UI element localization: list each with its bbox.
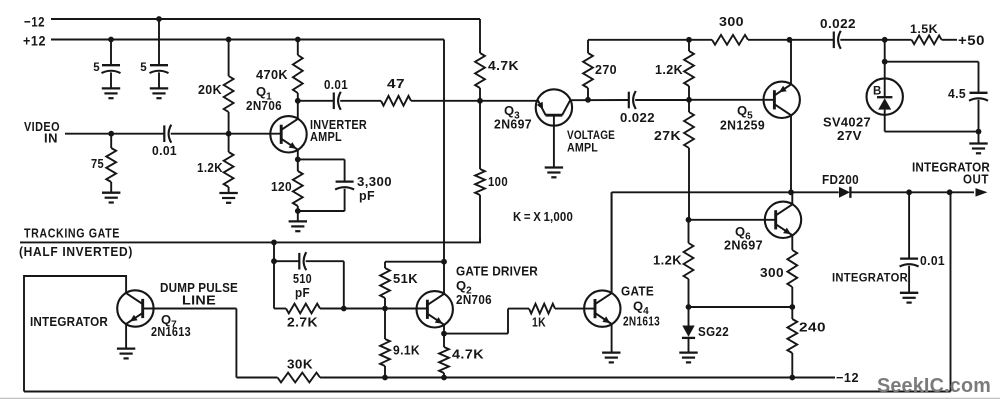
capacitor 3300pF bbox=[298, 159, 392, 211]
svg-text:pF: pF bbox=[359, 188, 375, 203]
ground Q3 base bbox=[545, 168, 563, 178]
node Q1 emitter bbox=[295, 157, 301, 163]
resistor 120 bbox=[271, 159, 303, 221]
svg-text:2N1613: 2N1613 bbox=[151, 324, 191, 339]
wire 47 to Q3 emitter bbox=[411, 100, 538, 102]
ground Q4 bbox=[602, 353, 620, 363]
svg-text:1.2K: 1.2K bbox=[653, 253, 682, 268]
capacitor 0.022 top bbox=[820, 17, 856, 49]
transistor Q7 2N1613 bbox=[117, 290, 153, 348]
svg-text:27V: 27V bbox=[837, 128, 862, 143]
capacitor 0.01 integrator bbox=[900, 192, 945, 292]
resistor 51K bbox=[380, 262, 444, 309]
svg-text:5: 5 bbox=[93, 62, 100, 74]
label Q1 bbox=[246, 84, 282, 113]
node Q5 emitter rail bbox=[787, 37, 793, 43]
resistor 470K bbox=[256, 37, 303, 101]
wire right rail bbox=[588, 39, 957, 41]
svg-text:GATE: GATE bbox=[621, 284, 654, 299]
wire +12 vertical feed to Q2 collector bbox=[443, 40, 445, 295]
resistor 2.7K bbox=[274, 304, 428, 330]
capacitor 4.5 bbox=[948, 86, 988, 101]
svg-text:51K: 51K bbox=[393, 271, 418, 286]
wire Q3 collector line bbox=[570, 99, 629, 101]
transistor Q2 2N706 bbox=[417, 291, 453, 334]
node 270 bottom bbox=[585, 97, 591, 103]
wire cap to 47 bbox=[340, 100, 381, 102]
node SG22 top bbox=[686, 304, 692, 310]
svg-text:1.5K: 1.5K bbox=[910, 24, 938, 36]
net label +50 bbox=[958, 32, 985, 48]
svg-text:INTEGRATOR: INTEGRATOR bbox=[30, 314, 108, 329]
transistor Q6 2N697 bbox=[765, 192, 801, 250]
node 510 branch bbox=[271, 258, 277, 264]
node 51K/9.1K/Q2 base bbox=[382, 306, 388, 312]
svg-text:TRACKING GATE: TRACKING GATE bbox=[24, 227, 120, 241]
net label VIDEO IN bbox=[24, 120, 60, 146]
wire Q2 emitter to 1K bbox=[444, 309, 508, 334]
wire 4.5 branch bbox=[885, 62, 979, 132]
capacitor C1 5 bbox=[93, 40, 120, 89]
svg-text:INTEGRATOR: INTEGRATOR bbox=[832, 271, 908, 285]
svg-text:9.1K: 9.1K bbox=[393, 343, 420, 358]
label K=X1,000 bbox=[513, 210, 573, 224]
label INTEGRATOR OUT bbox=[912, 161, 990, 187]
svg-text:+50: +50 bbox=[958, 32, 985, 48]
svg-text:270: 270 bbox=[595, 62, 617, 77]
label Q6 bbox=[724, 224, 763, 253]
svg-text:47: 47 bbox=[387, 76, 405, 91]
label INVERTER AMPL bbox=[310, 118, 367, 144]
node divider / Q5 base bbox=[686, 97, 692, 103]
svg-text:FD200: FD200 bbox=[822, 172, 859, 187]
net label +12 bbox=[23, 32, 46, 48]
svg-text:4.5: 4.5 bbox=[948, 86, 966, 101]
label DUMP PULSE LINE bbox=[160, 280, 238, 308]
svg-text:2N1259: 2N1259 bbox=[720, 118, 765, 133]
resistor 4.7K top bbox=[475, 19, 519, 101]
watermark bbox=[877, 374, 991, 397]
resistor 75 bbox=[91, 134, 116, 193]
svg-text:2N706: 2N706 bbox=[246, 98, 282, 113]
ground C1 bbox=[102, 88, 120, 98]
node 75 ohm top bbox=[108, 131, 114, 137]
wire dump pulse line bbox=[143, 309, 237, 378]
svg-text:0.022: 0.022 bbox=[820, 17, 856, 31]
arrow integrator out bbox=[976, 188, 988, 197]
ground SG22 bbox=[679, 353, 697, 363]
wire +12 rail bbox=[51, 39, 444, 41]
svg-text:300: 300 bbox=[719, 14, 744, 29]
svg-text:0.022: 0.022 bbox=[620, 110, 655, 125]
ground Q1 emitter bbox=[289, 221, 307, 231]
label TRACKING GATE bbox=[24, 227, 120, 241]
resistor 270 bbox=[583, 40, 617, 100]
resistor 1K bbox=[508, 304, 595, 330]
wire SV4027 top bbox=[884, 40, 886, 79]
svg-text:K = X 1,000: K = X 1,000 bbox=[513, 210, 573, 224]
resistor 47 bbox=[381, 76, 411, 106]
label VOLTAGE AMPL bbox=[567, 128, 615, 155]
svg-text:5: 5 bbox=[140, 62, 147, 74]
svg-text:pF: pF bbox=[295, 285, 310, 300]
svg-text:3,300: 3,300 bbox=[357, 174, 392, 189]
svg-text:−12: −12 bbox=[836, 370, 859, 385]
node -12/C2 bbox=[156, 16, 162, 22]
node 47/4.7K/100 bbox=[477, 98, 483, 104]
node SV4027 branch bbox=[882, 59, 888, 65]
label INTEGRATOR right bbox=[832, 271, 908, 285]
svg-text:510: 510 bbox=[293, 271, 312, 286]
wire feedback bottom bbox=[24, 192, 951, 391]
svg-text:240: 240 bbox=[799, 320, 826, 335]
svg-text:4.7K: 4.7K bbox=[488, 58, 519, 73]
svg-text:SeekIC.com: SeekIC.com bbox=[877, 374, 991, 397]
wire SV4027 bottom bbox=[885, 131, 979, 133]
diode FD200 bbox=[822, 172, 859, 198]
wire Q1 collector to cap bbox=[298, 100, 334, 102]
label GATE DRIVER bbox=[456, 264, 538, 308]
svg-text:1K: 1K bbox=[532, 315, 546, 330]
wire Q5 base bbox=[689, 99, 774, 101]
resistor 300 Q6 bbox=[760, 250, 797, 307]
capacitor 0.022 coupling bbox=[620, 91, 655, 125]
svg-text:AMPL: AMPL bbox=[567, 141, 598, 155]
resistor 20K bbox=[198, 37, 234, 134]
wire tracking gate bbox=[20, 238, 481, 242]
label INTEGRATOR left bbox=[30, 314, 108, 329]
svg-text:1.2K: 1.2K bbox=[655, 62, 683, 77]
node feedback bbox=[947, 189, 953, 195]
wire 510 left bbox=[273, 242, 275, 308]
transistor Q4 2N1613 bbox=[584, 192, 620, 352]
node 9.1K bottom bbox=[382, 375, 388, 381]
resistor 27K bbox=[654, 100, 694, 220]
capacitor 0.01 input bbox=[152, 125, 177, 158]
node 0.01 integrator bbox=[906, 189, 912, 195]
svg-text:27K: 27K bbox=[654, 128, 681, 143]
svg-text:(HALF INVERTED): (HALF INVERTED) bbox=[19, 245, 133, 259]
node 51K/+12 bbox=[441, 259, 447, 265]
label (HALF INVERTED) bbox=[19, 245, 133, 259]
svg-text:IN: IN bbox=[44, 132, 58, 146]
svg-text:470K: 470K bbox=[256, 67, 288, 82]
resistor 4.7K Q2 bbox=[439, 334, 484, 378]
node tracking/510 bbox=[271, 240, 277, 246]
net label -12 bottom bbox=[836, 370, 859, 385]
node Q6 base bbox=[686, 217, 692, 223]
node Q2 emitter bbox=[441, 331, 447, 337]
svg-text:20K: 20K bbox=[198, 82, 222, 97]
svg-text:2N706: 2N706 bbox=[456, 292, 492, 307]
label Q5 bbox=[720, 103, 765, 133]
svg-text:75: 75 bbox=[91, 156, 104, 171]
svg-text:2N697: 2N697 bbox=[494, 117, 532, 132]
node 4.5 bottom bbox=[976, 129, 982, 135]
svg-text:2.7K: 2.7K bbox=[287, 315, 318, 330]
label Q3 bbox=[494, 103, 532, 132]
ground C2 bbox=[150, 88, 168, 98]
node 240 bottom bbox=[789, 375, 795, 381]
diode SV4027 27V bbox=[867, 78, 903, 131]
node 4.7K bottom bbox=[441, 375, 447, 381]
wire cap to Q1 base bbox=[171, 133, 282, 135]
svg-text:LINE: LINE bbox=[182, 293, 216, 308]
label SV4027 bbox=[823, 115, 871, 144]
transistor Q5 2N1259 bbox=[764, 40, 800, 193]
capacitor C2 5 bbox=[140, 19, 168, 88]
svg-text:AMPL: AMPL bbox=[310, 130, 342, 144]
wire Q6 base bbox=[689, 219, 776, 221]
transistor Q1 2N706 bbox=[270, 101, 306, 160]
ground Q7 bbox=[117, 349, 135, 359]
node +12/C1 bbox=[108, 37, 114, 43]
svg-text:4.7K: 4.7K bbox=[452, 347, 484, 362]
node Q5/Q6 collectors bbox=[788, 189, 794, 195]
svg-text:2N1613: 2N1613 bbox=[623, 314, 660, 329]
svg-text:0.01: 0.01 bbox=[324, 77, 348, 92]
svg-text:0.01: 0.01 bbox=[920, 253, 945, 268]
capacitor 510pF bbox=[274, 252, 344, 308]
resistor 300 top bbox=[712, 14, 748, 45]
svg-text:1.2K: 1.2K bbox=[197, 160, 223, 175]
ground 0.01 integrator bbox=[900, 293, 918, 303]
diode SG22 bbox=[682, 307, 729, 353]
resistor 1.5K bbox=[910, 24, 942, 44]
node rail/SV4027 bbox=[882, 37, 888, 43]
label GATE Q4 bbox=[621, 284, 660, 329]
svg-text:B: B bbox=[873, 86, 882, 98]
node 300/240 bbox=[789, 304, 795, 310]
svg-text:120: 120 bbox=[271, 179, 292, 194]
resistor 100 bbox=[475, 101, 508, 243]
resistor 1.2K divider bbox=[655, 37, 694, 100]
label Q7 bbox=[151, 312, 191, 339]
ground 75 bbox=[102, 193, 120, 203]
svg-text:−12: −12 bbox=[24, 14, 45, 30]
wire integrator out bbox=[612, 191, 974, 193]
resistor 30K bbox=[236, 357, 835, 383]
resistor 9.1K bbox=[380, 309, 420, 378]
svg-text:+12: +12 bbox=[23, 32, 46, 48]
net label -12 (top left) bbox=[24, 14, 45, 30]
svg-text:100: 100 bbox=[488, 174, 508, 189]
svg-text:SG22: SG22 bbox=[698, 324, 729, 339]
svg-text:30K: 30K bbox=[287, 357, 313, 372]
wire -12 rail bbox=[51, 18, 480, 20]
svg-text:0.01: 0.01 bbox=[152, 143, 177, 158]
resistor 1.2K input bbox=[197, 134, 234, 193]
svg-text:OUT: OUT bbox=[963, 173, 989, 187]
wire cap to divider bbox=[635, 99, 689, 101]
wire 307 line bbox=[689, 306, 793, 308]
wire video input bbox=[65, 133, 164, 135]
wire Q4 collector bbox=[611, 192, 613, 290]
capacitor 0.01 coupling bbox=[324, 77, 348, 110]
ground 1.2K input bbox=[219, 193, 237, 203]
svg-text:300: 300 bbox=[760, 265, 784, 280]
node Q1 collector bbox=[295, 98, 301, 104]
wire feedback box bbox=[24, 276, 126, 392]
node 510/2.7K bbox=[341, 306, 347, 312]
svg-text:GATE DRIVER: GATE DRIVER bbox=[456, 264, 538, 279]
transistor Q3 2N697 bbox=[536, 89, 572, 167]
node 120 bottom bbox=[295, 208, 301, 214]
border bottom bbox=[0, 398, 1000, 399]
ground 4.5 bbox=[969, 132, 987, 154]
node Q1 base / 20K / 1.2K bbox=[226, 131, 232, 137]
resistor 1.2K Q6 bbox=[653, 220, 693, 307]
svg-text:2N697: 2N697 bbox=[724, 238, 763, 253]
resistor 240 bbox=[787, 307, 826, 378]
